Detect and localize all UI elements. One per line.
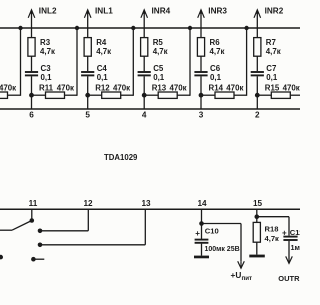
svg-text:C7: C7 <box>266 64 277 73</box>
svg-text:4,7к: 4,7к <box>153 47 168 56</box>
svg-text:2: 2 <box>255 110 260 119</box>
svg-text:100мк 25В: 100мк 25В <box>205 246 240 253</box>
svg-text:4: 4 <box>142 110 147 119</box>
svg-text:0,1: 0,1 <box>210 73 222 82</box>
svg-text:5: 5 <box>85 110 90 119</box>
svg-text:+U: +U <box>231 270 242 280</box>
svg-text:0,1: 0,1 <box>97 73 109 82</box>
svg-text:4,7к: 4,7к <box>210 47 225 56</box>
svg-text:R18: R18 <box>265 224 279 233</box>
svg-text:+: + <box>195 229 200 238</box>
svg-text:C5: C5 <box>153 64 164 73</box>
svg-text:INR4: INR4 <box>152 6 171 15</box>
svg-text:470к: 470к <box>283 83 300 92</box>
svg-text:INL1: INL1 <box>95 6 113 15</box>
svg-text:INR2: INR2 <box>265 6 284 15</box>
svg-text:OUTR: OUTR <box>278 274 300 283</box>
svg-text:470к: 470к <box>170 83 187 92</box>
svg-text:C3: C3 <box>41 64 52 73</box>
svg-text:3: 3 <box>199 110 204 119</box>
svg-text:0,1: 0,1 <box>41 73 53 82</box>
svg-text:6: 6 <box>29 110 34 119</box>
svg-text:470к: 470к <box>57 83 74 92</box>
svg-text:TDA1029: TDA1029 <box>104 153 138 162</box>
svg-text:R13: R13 <box>152 83 167 92</box>
svg-text:4,7к: 4,7к <box>265 234 280 243</box>
svg-text:INR3: INR3 <box>208 6 227 15</box>
svg-text:C4: C4 <box>97 64 108 73</box>
svg-text:4,7к: 4,7к <box>96 47 111 56</box>
svg-text:0,1: 0,1 <box>266 73 278 82</box>
svg-text:470к: 470к <box>0 83 16 92</box>
svg-text:C10: C10 <box>205 227 219 236</box>
svg-text:14: 14 <box>197 199 207 208</box>
svg-text:C6: C6 <box>210 64 221 73</box>
svg-text:R12: R12 <box>95 83 110 92</box>
svg-text:470к: 470к <box>226 83 243 92</box>
svg-text:15: 15 <box>253 199 263 208</box>
svg-text:470к: 470к <box>113 83 130 92</box>
svg-text:4,7к: 4,7к <box>266 47 281 56</box>
svg-text:R15: R15 <box>265 83 280 92</box>
svg-text:4,7к: 4,7к <box>40 47 55 56</box>
svg-text:0,1: 0,1 <box>153 73 165 82</box>
svg-text:R14: R14 <box>209 83 224 92</box>
svg-text:1мк: 1мк <box>291 243 301 252</box>
svg-text:13: 13 <box>141 199 151 208</box>
svg-text:R11: R11 <box>39 83 54 92</box>
svg-text:12: 12 <box>83 199 93 208</box>
svg-text:пит: пит <box>242 275 253 282</box>
svg-text:INL2: INL2 <box>39 6 57 15</box>
svg-text:C11: C11 <box>290 228 300 237</box>
svg-text:11: 11 <box>29 199 38 208</box>
